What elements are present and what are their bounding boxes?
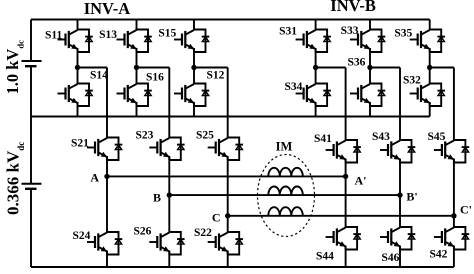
wire phase B wire (node B to node B-prime)	[169, 194, 400, 196]
svg-text:S35: S35	[394, 27, 412, 39]
svg-text:INV-B: INV-B	[330, 0, 376, 15]
wire S36 collector from node	[369, 68, 371, 84]
svg-text:IM: IM	[276, 139, 293, 153]
wire phase C wire (node C to node C-prime)	[228, 215, 454, 217]
wire cascade down-wire leg 3 side L	[227, 68, 229, 138]
transistor S12 (IGBT with antiparallel diode)	[174, 84, 209, 107]
transistor S31 (IGBT with antiparallel diode)	[296, 30, 331, 53]
svg-text:S16: S16	[146, 72, 164, 84]
battery V1 (1.0 kV dc source)	[22, 61, 42, 66]
node A (junction dot)	[104, 174, 109, 179]
wire cascade down-wire leg 2 side L	[168, 68, 170, 138]
transistor S35 (IGBT with antiparallel diode)	[410, 30, 445, 53]
wire S35 collector to top bus	[429, 20, 431, 31]
transistor S14 (IGBT with antiparallel diode)	[58, 84, 93, 107]
wire S11 collector to top bus	[77, 20, 79, 31]
wire S41 emitter to phase node	[345, 159, 347, 177]
wire S44 emitter to bottom bus	[345, 246, 347, 268]
node B' (junction dot)	[397, 192, 402, 197]
wire phase node to S22 collector	[227, 216, 229, 232]
svg-text:C': C'	[460, 203, 472, 217]
wire cascade down-wire leg 1 side L	[106, 68, 108, 138]
wire cascade down-wire leg 1 side R	[345, 68, 347, 141]
svg-text:S34: S34	[285, 81, 303, 93]
wire left rail middle segment	[30, 66, 32, 184]
node C (junction dot)	[225, 213, 230, 218]
wire S11 emitter to midpoint node	[77, 48, 79, 68]
node S15/S12 midpoint (junction dot)	[191, 65, 196, 70]
svg-text:S14: S14	[90, 70, 108, 82]
transistor S36 (IGBT with antiparallel diode)	[350, 84, 385, 107]
transistor S32 (IGBT with antiparallel diode)	[410, 84, 445, 107]
transistor S26 (IGBT with antiparallel diode)	[149, 232, 184, 255]
svg-text:B: B	[153, 191, 161, 205]
node S31/S34 midpoint (junction dot)	[313, 65, 318, 70]
svg-text:S12: S12	[207, 70, 225, 82]
transistor S16 (IGBT with antiparallel diode)	[117, 84, 152, 107]
transistor S44 (IGBT with antiparallel diode)	[326, 227, 361, 250]
node S13/S16 midpoint (junction dot)	[134, 65, 139, 70]
wire S16 emitter to middle bus	[136, 102, 138, 117]
wire bottom DC bus (negative rail of 0.366 kV source)	[31, 266, 454, 268]
wire phase node to S26 collector	[168, 195, 170, 232]
svg-text:S42: S42	[430, 249, 448, 261]
wire cascade down-wire leg 2 side R	[399, 68, 401, 141]
wire phase node to S46 collector	[399, 195, 401, 227]
node C' (junction dot)	[451, 213, 456, 218]
wire midpoint S35/S32 to cascade (horizontal)	[430, 67, 454, 69]
wire S12 collector from node	[193, 68, 195, 84]
wire phase A wire (node A to node A-prime)	[107, 175, 346, 177]
svg-text:S22: S22	[194, 227, 212, 239]
wire S14 collector from node	[77, 68, 79, 84]
wire phase node to S44 collector	[345, 176, 347, 227]
node B (junction dot)	[167, 192, 172, 197]
transistor S41 (IGBT with antiparallel diode)	[326, 140, 361, 163]
battery V2 (0.366 kV dc source)	[22, 184, 42, 189]
svg-text:S44: S44	[316, 251, 334, 263]
wire cascade down-wire leg 3 side R	[453, 68, 455, 141]
wire S23 emitter to phase node	[168, 156, 170, 195]
wire S13 collector to top bus	[136, 20, 138, 31]
transistor S46 (IGBT with antiparallel diode)	[380, 227, 415, 250]
wire S34 collector from node	[315, 68, 317, 84]
wire midpoint S15/S12 to cascade (horizontal)	[194, 67, 228, 69]
svg-text:S43: S43	[372, 131, 390, 143]
wire S26 emitter to bottom bus	[168, 251, 170, 268]
wire phase node to S24 collector	[106, 176, 108, 232]
svg-text:S36: S36	[348, 57, 366, 69]
transistor S43 (IGBT with antiparallel diode)	[380, 140, 415, 163]
svg-text:S21: S21	[71, 138, 89, 150]
wire left rail lower segment	[30, 189, 32, 267]
wire S46 emitter to bottom bus	[399, 246, 401, 268]
inductor winding phase C of induction machine	[268, 207, 303, 216]
transistor S15 (IGBT with antiparallel diode)	[174, 30, 209, 53]
inductor winding phase B of induction machine	[268, 187, 303, 196]
node S33/S36 midpoint (junction dot)	[367, 65, 372, 70]
transistor S25 (IGBT with antiparallel diode)	[208, 138, 243, 161]
transistor S13 (IGBT with antiparallel diode)	[117, 30, 152, 53]
wire midpoint S13/S16 to cascade (horizontal)	[137, 67, 170, 69]
wire S14 emitter to middle bus	[77, 102, 79, 117]
wire midpoint S31/S34 to cascade (horizontal)	[316, 67, 346, 69]
svg-text:S46: S46	[382, 252, 400, 264]
transistor S21 (IGBT with antiparallel diode)	[87, 138, 122, 161]
wire S15 collector to top bus	[193, 20, 195, 31]
wire S13 emitter to midpoint node	[136, 48, 138, 68]
svg-text:S45: S45	[428, 131, 446, 143]
svg-text:INV-A: INV-A	[84, 0, 131, 18]
node A' (junction dot)	[343, 174, 348, 179]
transistor S45 (IGBT with antiparallel diode)	[434, 140, 469, 163]
svg-text:S24: S24	[73, 230, 91, 242]
wire midpoint S11/S14 to cascade (horizontal)	[78, 67, 108, 69]
transistor S23 (IGBT with antiparallel diode)	[149, 138, 184, 161]
transistor S42 (IGBT with antiparallel diode)	[434, 227, 469, 250]
wire middle DC bus (negative of 1.0 kV / positive of 0.366 kV)	[31, 116, 430, 118]
svg-text:S33: S33	[341, 25, 359, 37]
svg-text:A': A'	[355, 173, 367, 187]
svg-text:S32: S32	[403, 75, 421, 87]
wire S25 emitter to phase node	[227, 156, 229, 216]
svg-text:S41: S41	[314, 133, 332, 145]
svg-text:S13: S13	[99, 29, 117, 41]
svg-text:S25: S25	[196, 130, 214, 142]
wire S31 collector to top bus	[315, 20, 317, 31]
wire S32 emitter to middle bus	[429, 102, 431, 117]
svg-text:B': B'	[406, 189, 417, 203]
transistor S24 (IGBT with antiparallel diode)	[87, 232, 122, 255]
inductor winding phase A of induction machine	[268, 168, 303, 177]
transistor S34 (IGBT with antiparallel diode)	[296, 84, 331, 107]
wire phase node to S42 collector	[453, 216, 455, 227]
node S35/S32 midpoint (junction dot)	[427, 65, 432, 70]
wire S33 collector to top bus	[369, 20, 371, 31]
wire S24 emitter to bottom bus	[106, 251, 108, 268]
svg-text:S11: S11	[45, 29, 63, 41]
transistor S33 (IGBT with antiparallel diode)	[350, 30, 385, 53]
wire top DC bus (positive rail of 1.0 kV source)	[31, 19, 430, 21]
wire S32 collector from node	[429, 68, 431, 84]
wire S42 emitter to bottom bus	[453, 246, 455, 268]
svg-text:S26: S26	[134, 226, 152, 238]
wire S15 emitter to midpoint node	[193, 48, 195, 68]
svg-text:S23: S23	[136, 130, 154, 142]
wire S22 emitter to bottom bus	[227, 251, 229, 268]
svg-text:A: A	[90, 171, 99, 185]
wire S34 emitter to middle bus	[315, 102, 317, 117]
wire S12 emitter to middle bus	[193, 102, 195, 117]
wire S45 emitter to phase node	[453, 159, 455, 216]
transistor S22 (IGBT with antiparallel diode)	[208, 232, 243, 255]
svg-text:S15: S15	[158, 28, 176, 40]
wire S33 emitter to midpoint node	[369, 48, 371, 68]
wire S16 collector from node	[136, 68, 138, 84]
wire S21 emitter to phase node	[106, 156, 108, 176]
wire S35 emitter to midpoint node	[429, 48, 431, 68]
svg-text:S31: S31	[279, 26, 297, 38]
wire S31 emitter to midpoint node	[315, 48, 317, 68]
wire S36 emitter to middle bus	[369, 102, 371, 117]
transistor S11 (IGBT with antiparallel diode)	[58, 30, 93, 53]
wire midpoint S33/S36 to cascade (horizontal)	[370, 67, 400, 69]
wire S43 emitter to phase node	[399, 159, 401, 196]
svg-text:C: C	[212, 211, 221, 225]
node S11/S14 midpoint (junction dot)	[75, 65, 80, 70]
induction machine body (dashed ellipse)	[258, 155, 315, 237]
wire left rail upper segment	[30, 20, 32, 62]
